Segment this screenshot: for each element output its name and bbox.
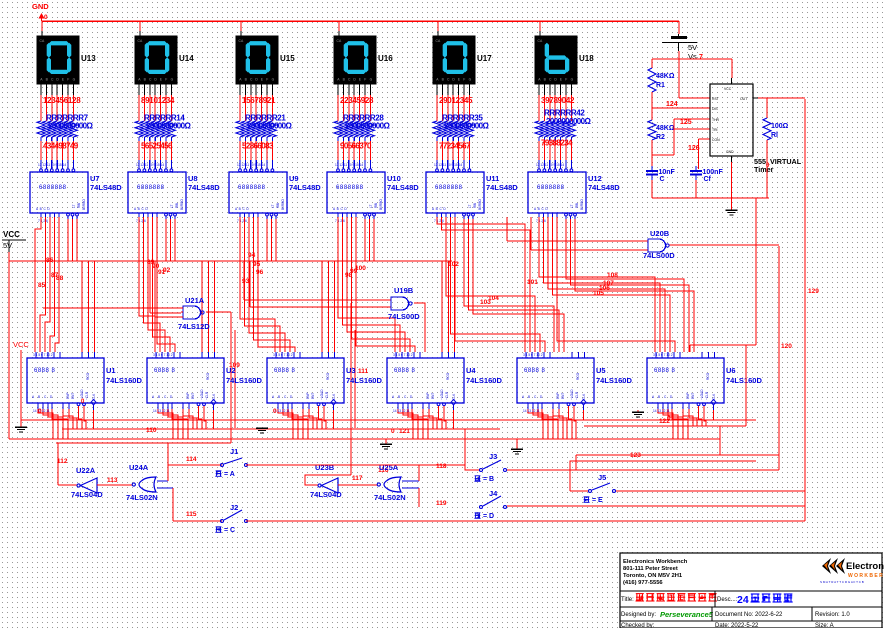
svg-text:Electron: Electron (846, 561, 884, 572)
svg-text:J1: J1 (230, 447, 238, 456)
svg-text:A B C D: A B C D (36, 207, 50, 211)
svg-text:GND: GND (32, 2, 49, 11)
svg-text:7 1 2 6: 7 1 2 6 (237, 219, 247, 223)
svg-text:ENP: ENP (306, 392, 310, 399)
svg-text:94: 94 (248, 252, 256, 259)
svg-text:BI/RBO: BI/RBO (379, 199, 383, 210)
svg-text:CA: CA (538, 39, 543, 43)
svg-text:6888 8: 6888 8 (34, 368, 56, 374)
svg-text:74LS160D: 74LS160D (726, 376, 762, 385)
svg-text:93: 93 (242, 278, 250, 285)
svg-text:CLK: CLK (332, 393, 336, 400)
svg-text:6888 8: 6888 8 (524, 368, 546, 374)
svg-text:6888888: 6888888 (336, 185, 364, 191)
svg-text:U23B: U23B (315, 463, 335, 472)
svg-text:74LS48D: 74LS48D (588, 183, 620, 192)
svg-text:U11: U11 (486, 174, 499, 183)
svg-text:Designed by:: Designed by: (621, 612, 656, 618)
svg-text:OUT: OUT (740, 97, 747, 101)
svg-text:Cf: Cf (704, 176, 712, 183)
svg-text:ENP: ENP (556, 392, 560, 399)
svg-text:113: 113 (107, 477, 118, 484)
svg-text:G: G (272, 78, 275, 82)
svg-text:~CLR: ~CLR (445, 391, 449, 400)
svg-text:U6: U6 (726, 366, 736, 375)
svg-text:115: 115 (186, 511, 197, 518)
svg-text:6888 8: 6888 8 (274, 368, 296, 374)
svg-text:434498749: 434498749 (43, 142, 79, 151)
svg-text:107: 107 (603, 280, 614, 287)
svg-text:90566370: 90566370 (340, 142, 372, 151)
svg-text:R1: R1 (656, 82, 665, 89)
svg-text:77234567: 77234567 (439, 142, 471, 151)
svg-text:= B: = B (483, 476, 494, 483)
svg-text:TRI: TRI (712, 128, 718, 132)
svg-text:ENP: ENP (186, 392, 190, 399)
svg-text:14 13 12 11: 14 13 12 11 (653, 409, 670, 413)
svg-text:95: 95 (253, 261, 261, 268)
svg-text:U24A: U24A (129, 463, 149, 472)
svg-text:125: 125 (680, 119, 692, 126)
svg-text:111: 111 (358, 368, 369, 375)
svg-text:CA: CA (436, 39, 441, 43)
svg-text:RCO: RCO (326, 372, 330, 380)
svg-text:13 12 11 10 9 15 14: 13 12 11 10 9 15 14 (434, 163, 462, 167)
svg-text:B: B (528, 395, 530, 399)
svg-text:W O R K B E R: W O R K B E R (848, 573, 883, 579)
svg-text:G: G (370, 78, 373, 82)
svg-text:U25A: U25A (379, 463, 399, 472)
svg-text:ENT: ENT (311, 393, 315, 399)
svg-text:CLK: CLK (212, 393, 216, 400)
svg-text:LT: LT (72, 204, 76, 208)
svg-text:F: F (165, 78, 167, 82)
svg-text:A B C D: A B C D (534, 207, 548, 211)
svg-text:~LOAD: ~LOAD (570, 389, 574, 400)
svg-text:86: 86 (46, 257, 54, 264)
svg-text:101: 101 (527, 279, 538, 286)
svg-text:BI/RBO: BI/RBO (82, 199, 86, 210)
svg-text:2000000000Ω: 2000000000Ω (345, 122, 390, 131)
svg-text:= C: = C (224, 527, 235, 534)
svg-text:14 13 12 11: 14 13 12 11 (393, 409, 410, 413)
svg-text:29012345: 29012345 (439, 96, 473, 105)
svg-text:96: 96 (256, 269, 264, 276)
svg-text:U18: U18 (579, 54, 594, 63)
svg-text:R2: R2 (656, 134, 665, 141)
svg-text:Desc...:: Desc...: (717, 597, 738, 603)
svg-text:U13: U13 (81, 54, 96, 63)
svg-text:0: 0 (44, 14, 48, 21)
svg-text:22345928: 22345928 (340, 96, 374, 105)
svg-text:~CLR: ~CLR (205, 391, 209, 400)
svg-text:104: 104 (488, 295, 499, 302)
svg-text:15678921: 15678921 (242, 96, 276, 105)
svg-text:~CLR: ~CLR (85, 391, 89, 400)
svg-text:U4: U4 (466, 366, 476, 375)
svg-text:114: 114 (186, 456, 197, 463)
svg-text:Timer: Timer (754, 165, 774, 174)
svg-text:6888888: 6888888 (537, 185, 565, 191)
svg-text:Electronics Workbench: Electronics Workbench (623, 559, 688, 565)
svg-text:Date: 2022-5-22: Date: 2022-5-22 (715, 623, 759, 628)
svg-text:CLK: CLK (452, 393, 456, 400)
svg-text:RCO: RCO (86, 372, 90, 380)
svg-text:(416) 977-5556: (416) 977-5556 (623, 580, 663, 586)
svg-text:Rl: Rl (771, 132, 778, 139)
svg-text:74LS04D: 74LS04D (310, 490, 342, 499)
svg-text:U5: U5 (596, 366, 606, 375)
svg-text:~LOAD: ~LOAD (700, 389, 704, 400)
svg-text:~CLR: ~CLR (325, 391, 329, 400)
svg-text:BI/RBO: BI/RBO (281, 199, 285, 210)
svg-text:~CLR: ~CLR (705, 391, 709, 400)
svg-text:801-111 Peter Street: 801-111 Peter Street (623, 566, 678, 572)
svg-text:ENP: ENP (686, 392, 690, 399)
svg-text:= E: = E (592, 497, 603, 504)
svg-text:~CLR: ~CLR (575, 391, 579, 400)
svg-text:ENT: ENT (71, 393, 75, 399)
svg-text:74LS12D: 74LS12D (178, 322, 210, 331)
svg-text:GND: GND (726, 150, 734, 154)
svg-text:CA: CA (138, 39, 143, 43)
svg-text:56525456: 56525456 (141, 142, 173, 151)
svg-text:85: 85 (38, 282, 46, 289)
svg-text:RBI: RBI (473, 203, 477, 208)
svg-text:~LOAD: ~LOAD (200, 389, 204, 400)
svg-text:79388234: 79388234 (541, 139, 573, 148)
svg-text:Vs: Vs (688, 52, 697, 61)
svg-text:U7: U7 (90, 174, 100, 183)
svg-text:Document No: 2022-6-22: Document No: 2022-6-22 (715, 612, 783, 618)
svg-text:74LS48D: 74LS48D (387, 183, 419, 192)
svg-text:F: F (266, 78, 268, 82)
svg-text:U2: U2 (226, 366, 236, 375)
svg-text:CLK: CLK (582, 393, 586, 400)
svg-text:U19B: U19B (394, 286, 414, 295)
svg-text:24: 24 (737, 594, 749, 606)
svg-text:J2: J2 (230, 503, 238, 512)
svg-text:6888 8: 6888 8 (654, 368, 676, 374)
svg-text:119: 119 (436, 500, 447, 507)
svg-text:ENT: ENT (191, 393, 195, 399)
svg-text:6888888: 6888888 (39, 185, 67, 191)
svg-text:7 1 2 6: 7 1 2 6 (38, 219, 48, 223)
svg-text:129: 129 (808, 288, 819, 295)
svg-text:124: 124 (666, 101, 678, 108)
svg-text:Revision: 1.0: Revision: 1.0 (815, 612, 850, 618)
svg-text:6888888: 6888888 (238, 185, 266, 191)
svg-text:G: G (571, 78, 574, 82)
svg-text:C: C (660, 176, 665, 183)
svg-text:2000000000Ω: 2000000000Ω (48, 122, 93, 131)
svg-text:74LS00D: 74LS00D (643, 251, 675, 260)
svg-text:39789042: 39789042 (541, 96, 575, 105)
svg-text:74LS04D: 74LS04D (71, 490, 103, 499)
svg-text:CLK: CLK (712, 393, 716, 400)
svg-text:A B C D: A B C D (235, 207, 249, 211)
svg-text:B: B (158, 395, 160, 399)
svg-text:~LOAD: ~LOAD (440, 389, 444, 400)
svg-text:74LS48D: 74LS48D (90, 183, 122, 192)
svg-text:LT: LT (271, 204, 275, 208)
svg-text:RST: RST (712, 97, 719, 101)
svg-text:J4: J4 (489, 489, 498, 498)
svg-text:LT: LT (170, 204, 174, 208)
svg-text:0: 0 (38, 408, 42, 415)
svg-text:118: 118 (436, 463, 447, 470)
svg-text:CA: CA (40, 39, 45, 43)
svg-text:6888 8: 6888 8 (394, 368, 416, 374)
svg-text:74LS160D: 74LS160D (466, 376, 502, 385)
svg-text:U12: U12 (588, 174, 602, 183)
svg-text:48KΩ: 48KΩ (656, 73, 675, 80)
svg-text:52866083: 52866083 (242, 142, 274, 151)
svg-text:U20B: U20B (650, 229, 670, 238)
svg-text:BI/RBO: BI/RBO (180, 199, 184, 210)
svg-text:RCO: RCO (446, 372, 450, 380)
svg-text:CLK: CLK (92, 393, 96, 400)
svg-text:74LS160D: 74LS160D (226, 376, 262, 385)
svg-text:CA: CA (337, 39, 342, 43)
svg-text:U17: U17 (477, 54, 492, 63)
svg-text:74LS160D: 74LS160D (106, 376, 142, 385)
svg-text:RBI: RBI (575, 203, 579, 208)
svg-text:74LS160D: 74LS160D (346, 376, 382, 385)
svg-text:CON: CON (712, 138, 720, 142)
svg-text:ENT: ENT (561, 393, 565, 399)
svg-text:100nF: 100nF (703, 169, 724, 176)
svg-text:74LS48D: 74LS48D (289, 183, 321, 192)
svg-text:= A: = A (224, 471, 235, 478)
svg-text:VCC: VCC (724, 87, 732, 91)
svg-text:F: F (463, 78, 465, 82)
svg-text:CA: CA (239, 39, 244, 43)
svg-text:100Ω: 100Ω (771, 123, 789, 130)
svg-text:U16: U16 (378, 54, 393, 63)
svg-text:74LS02N: 74LS02N (126, 493, 158, 502)
svg-text:LT: LT (570, 204, 574, 208)
svg-text:THR: THR (712, 118, 720, 122)
svg-text:U21A: U21A (185, 296, 205, 305)
svg-text:2000000000Ω: 2000000000Ω (247, 122, 292, 131)
svg-text:DIS: DIS (712, 107, 718, 111)
svg-text:74LS02N: 74LS02N (374, 493, 406, 502)
svg-text:G: G (171, 78, 174, 82)
svg-text:LT: LT (468, 204, 472, 208)
svg-text:B: B (658, 395, 660, 399)
svg-text:7 1 2 6: 7 1 2 6 (136, 219, 146, 223)
svg-text:108: 108 (607, 272, 618, 279)
svg-text:6888888: 6888888 (137, 185, 165, 191)
svg-text:117: 117 (352, 475, 363, 482)
svg-text:= D: = D (483, 513, 494, 520)
svg-text:J3: J3 (489, 452, 497, 461)
svg-text:120: 120 (781, 343, 792, 350)
svg-text:89101234: 89101234 (141, 96, 175, 105)
svg-text:0: 0 (667, 415, 671, 422)
svg-text:13 12 11 10 9 15 14: 13 12 11 10 9 15 14 (38, 163, 66, 167)
svg-text:B: B (278, 395, 280, 399)
svg-text:13 12 11 10 9 15 14: 13 12 11 10 9 15 14 (237, 163, 265, 167)
svg-text:14 13 12 11: 14 13 12 11 (523, 409, 540, 413)
svg-text:88: 88 (56, 275, 64, 282)
svg-text:6888888: 6888888 (435, 185, 463, 191)
svg-text:U3: U3 (346, 366, 356, 375)
svg-text:ENP: ENP (66, 392, 70, 399)
svg-text:Toronto, ON M5V 2H1: Toronto, ON M5V 2H1 (623, 573, 683, 579)
svg-text:VCC: VCC (3, 230, 20, 239)
svg-text:B: B (38, 395, 40, 399)
svg-text:102: 102 (448, 261, 459, 268)
svg-text:G: G (469, 78, 472, 82)
svg-text:BI/RBO: BI/RBO (478, 199, 482, 210)
svg-text:U1: U1 (106, 366, 116, 375)
svg-text:74LS00D: 74LS00D (388, 312, 420, 321)
svg-text:U8: U8 (188, 174, 198, 183)
svg-text:ENT: ENT (431, 393, 435, 399)
svg-text:U9: U9 (289, 174, 299, 183)
svg-text:RBI: RBI (276, 203, 280, 208)
svg-text:7 1 2 6: 7 1 2 6 (335, 219, 345, 223)
svg-text:A B C D: A B C D (432, 207, 446, 211)
svg-text:B: B (398, 395, 400, 399)
svg-text:126: 126 (688, 145, 700, 152)
svg-text:Size: A: Size: A (815, 623, 834, 628)
svg-text:U22A: U22A (76, 466, 96, 475)
svg-text:U10: U10 (387, 174, 401, 183)
svg-text:13 12 11 10 9 15 14: 13 12 11 10 9 15 14 (335, 163, 363, 167)
svg-text:74LS160D: 74LS160D (596, 376, 632, 385)
svg-text:ENT: ENT (691, 393, 695, 399)
svg-text:2000000000Ω: 2000000000Ω (546, 117, 591, 126)
svg-text:BI/RBO: BI/RBO (580, 199, 584, 210)
svg-text:RCO: RCO (576, 372, 580, 380)
svg-text:7: 7 (699, 54, 703, 61)
svg-text:ENP: ENP (426, 392, 430, 399)
svg-text:74LS48D: 74LS48D (486, 183, 518, 192)
svg-text:F: F (364, 78, 366, 82)
svg-text:VCC: VCC (13, 340, 29, 349)
svg-text:U14: U14 (179, 54, 194, 63)
svg-text:Checked by:: Checked by: (621, 623, 655, 628)
svg-text:100: 100 (355, 265, 366, 272)
svg-text:5V: 5V (3, 241, 12, 250)
svg-text:7 1 2 6: 7 1 2 6 (536, 219, 546, 223)
svg-text:7 1 2 6: 7 1 2 6 (434, 219, 444, 223)
svg-text:G: G (73, 78, 76, 82)
svg-text:Perseverance5: Perseverance5 (660, 610, 714, 619)
svg-text:LT: LT (369, 204, 373, 208)
svg-text:14 13 12 11: 14 13 12 11 (153, 409, 170, 413)
svg-text:48KΩ: 48KΩ (656, 125, 675, 132)
svg-text:F: F (67, 78, 69, 82)
svg-text:RBI: RBI (374, 203, 378, 208)
svg-text:S M A T R A T T C R G A F T: S M A T R A T T C R G A F T C B (820, 580, 864, 584)
svg-text:112: 112 (57, 458, 68, 465)
svg-text:RCO: RCO (206, 372, 210, 380)
svg-text:F: F (565, 78, 567, 82)
svg-text:2000000000Ω: 2000000000Ω (444, 122, 489, 131)
svg-text:U15: U15 (280, 54, 295, 63)
svg-text:74LS48D: 74LS48D (188, 183, 220, 192)
svg-text:0: 0 (273, 408, 277, 415)
svg-text:RCO: RCO (706, 372, 710, 380)
svg-text:~LOAD: ~LOAD (320, 389, 324, 400)
svg-text:J5: J5 (598, 473, 606, 482)
svg-text:123456128: 123456128 (43, 96, 81, 105)
svg-text:RBI: RBI (77, 203, 81, 208)
svg-text:5V: 5V (688, 43, 697, 52)
svg-text:Title:: Title: (621, 597, 634, 603)
svg-text:10nF: 10nF (659, 169, 676, 176)
svg-text:13 12 11 10 9 15 14: 13 12 11 10 9 15 14 (136, 163, 164, 167)
svg-text:A B C D: A B C D (134, 207, 148, 211)
svg-text:6888 8: 6888 8 (154, 368, 176, 374)
svg-text:A B C D: A B C D (333, 207, 347, 211)
svg-text:13 12 11 10 9 15 14: 13 12 11 10 9 15 14 (536, 163, 564, 167)
svg-text:2000000000Ω: 2000000000Ω (146, 122, 191, 131)
svg-text:110: 110 (146, 427, 157, 434)
svg-text:RBI: RBI (175, 203, 179, 208)
svg-text:92: 92 (163, 267, 171, 274)
